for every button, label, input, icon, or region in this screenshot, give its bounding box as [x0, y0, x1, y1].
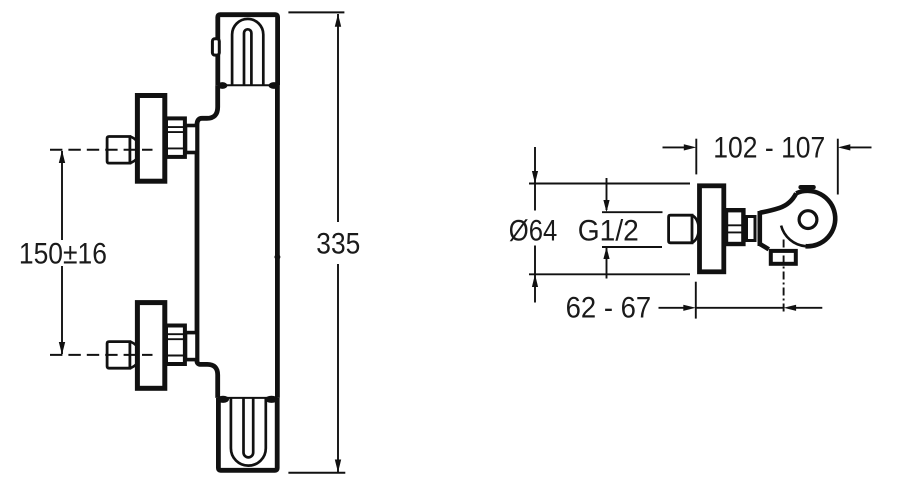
G1/2 supply stub	[669, 215, 692, 243]
top handle outer arch slot	[232, 19, 263, 85]
335 extension line bottom	[288, 472, 345, 474]
body block top edge with fillet	[760, 193, 796, 213]
stub cone arc	[692, 215, 699, 243]
bottom handle outline	[218, 398, 277, 470]
joint junction dots	[217, 82, 227, 89]
side nut facets	[727, 224, 744, 226]
knob flat top cap	[801, 185, 814, 189]
svg-text:102 - 107: 102 - 107	[713, 131, 825, 164]
svg-text:62 - 67: 62 - 67	[566, 291, 652, 324]
bottom handle joint line	[218, 397, 278, 399]
body left edge with S-curves	[197, 85, 218, 398]
335 extension line top	[288, 11, 344, 13]
svg-text:150±16: 150±16	[19, 238, 107, 271]
top handle outline	[218, 15, 278, 86]
bottom inlet centerline	[50, 354, 153, 356]
top inlet cap	[107, 137, 130, 164]
arrow down	[59, 342, 65, 355]
102-107 extension lines	[695, 139, 697, 175]
arrow up	[59, 150, 65, 163]
body block bottom edge	[760, 244, 769, 249]
top inlet centerline	[50, 149, 153, 151]
knob inner circle	[799, 211, 817, 229]
knob circle main arc	[796, 191, 835, 246]
bottom nut facet lines	[167, 333, 185, 335]
side band2	[747, 217, 756, 241]
top nut facet lines	[167, 126, 185, 128]
bottom inlet socket	[186, 333, 198, 360]
svg-text:G1/2: G1/2	[578, 215, 639, 248]
top inlet socket	[186, 126, 198, 153]
102-107 arrows + tails	[663, 146, 685, 148]
bottom handle outer U slot	[231, 398, 266, 466]
Ø64 extension lines	[529, 183, 690, 185]
svg-text:Ø64: Ø64	[509, 215, 558, 248]
top inlet nut	[166, 118, 185, 156]
top handle joint line	[218, 84, 278, 86]
62-67 dimension line	[696, 307, 784, 309]
bottom inlet wall flange	[137, 303, 164, 389]
top inlet cone arc	[130, 137, 140, 164]
bottom inlet cap	[107, 342, 130, 369]
Ø64 dimension line + arrows	[534, 147, 536, 211]
side nut	[726, 210, 743, 244]
body block left edge	[757, 211, 762, 246]
diverter tab button on left edge of top handle	[212, 39, 219, 55]
side wall flange	[700, 186, 724, 272]
outlet square	[771, 251, 796, 264]
bottom inlet nut	[166, 326, 185, 365]
dimension 150±16 line	[61, 151, 63, 240]
knob circle lower-left thin arc	[781, 226, 805, 247]
G1/2 dimension line + arrows	[606, 178, 608, 210]
62-67 arrows + tails	[659, 307, 684, 309]
dimension 335 line	[337, 14, 339, 222]
body right edge	[275, 85, 280, 398]
top handle inner arch slot	[244, 29, 251, 85]
svg-text:335: 335	[316, 228, 360, 261]
bottom handle inner U slot	[244, 398, 254, 457]
outlet center dash-dot line	[783, 240, 785, 313]
top inlet wall flange	[137, 96, 164, 182]
G1/2 extension lines	[602, 211, 663, 213]
bottom inlet cone arc	[130, 342, 140, 369]
small dot on right edge of body	[274, 254, 280, 259]
62-67 extension line	[695, 282, 697, 319]
